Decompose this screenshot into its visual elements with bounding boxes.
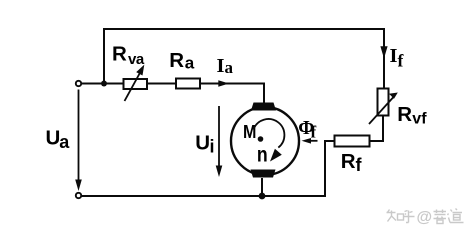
svg-text:f: f	[356, 155, 363, 175]
motor M body (armature circle)	[231, 107, 299, 175]
wire: Ra to motor (turns down to brush)	[200, 84, 264, 104]
arrow If (field current)	[380, 46, 387, 58]
svg-text:va: va	[128, 51, 145, 68]
motor brush bottom	[251, 170, 276, 178]
wire: bottom return rail	[82, 195, 326, 197]
svg-text:vf: vf	[412, 111, 427, 128]
wire: top horizontal rail	[103, 28, 384, 30]
resistor Rva (variable, armature rheostat)	[124, 65, 148, 101]
terminal + (upper left, open circle)	[76, 81, 81, 86]
svg-text:a: a	[59, 132, 70, 152]
arrow Phi-f (flux direction, points left)	[302, 138, 318, 144]
svg-text:R: R	[112, 43, 127, 66]
terminal - (lower left, open circle)	[76, 193, 81, 198]
watermark: zhihu @pudao (drawn strokes, gray)	[387, 209, 464, 227]
node A (junction dot, top-left)	[101, 81, 107, 87]
label Rf	[341, 150, 363, 175]
svg-text:@: @	[417, 209, 433, 226]
wire: Rva to Ra	[147, 83, 176, 85]
wire: top-left riser from node A to top rail	[103, 29, 105, 84]
arrow Ia (armature current)	[218, 80, 229, 87]
label M with shaft dot	[243, 122, 263, 142]
svg-text:U: U	[46, 126, 61, 149]
arrow Ui (back EMF, points down)	[216, 106, 223, 177]
svg-text:R: R	[341, 150, 356, 173]
label n (speed)	[257, 144, 268, 167]
wire: bottom rail up to Rf	[325, 141, 335, 197]
resistor Rf (field winding)	[335, 136, 370, 147]
label If	[390, 45, 404, 70]
wire: field branch vertical (right)	[383, 28, 385, 89]
svg-text:U: U	[195, 132, 210, 155]
wire: Rf to Rvf	[370, 115, 384, 141]
svg-text:R: R	[169, 49, 184, 72]
label Rva	[112, 43, 145, 69]
label Phi-f (field flux)	[298, 118, 316, 142]
svg-text:R: R	[397, 103, 412, 126]
label Ui	[195, 132, 214, 157]
label Ua	[46, 126, 71, 151]
svg-text:a: a	[225, 58, 234, 77]
arrow Ua (terminal voltage, points down)	[75, 90, 82, 192]
rotation arrow n (clockwise arc)	[253, 119, 284, 161]
svg-text:a: a	[185, 53, 195, 72]
svg-text:M: M	[243, 122, 256, 142]
label Ia	[217, 55, 234, 77]
svg-text:n: n	[257, 144, 268, 167]
label Ra	[169, 49, 195, 72]
resistor Rvf (variable, field rheostat)	[369, 89, 398, 125]
node B (junction dot on bottom rail)	[259, 193, 266, 200]
resistor Ra (armature resistance)	[176, 79, 200, 89]
svg-text:I: I	[217, 55, 225, 77]
motor brush top	[251, 103, 276, 111]
svg-text:f: f	[311, 123, 317, 142]
wire: terminal to Rva	[82, 83, 125, 85]
svg-text:f: f	[398, 50, 404, 70]
svg-text:I: I	[390, 45, 398, 67]
svg-text:i: i	[210, 137, 215, 157]
label Rvf	[397, 103, 427, 128]
wire: motor bottom lead	[261, 178, 263, 196]
